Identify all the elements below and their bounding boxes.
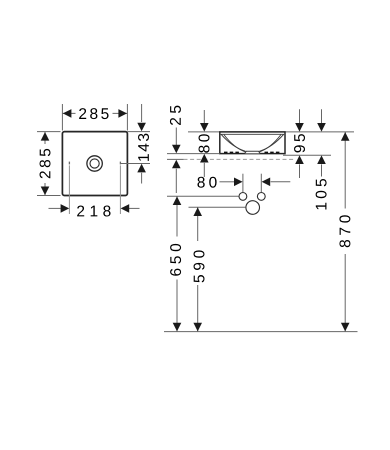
- dim 25: top arrow: [172, 145, 181, 154]
- dim 143 right: top tick: [127, 131, 150, 133]
- dim 105: top arrow: [317, 123, 326, 132]
- dim 143 right: label 143: [138, 134, 149, 161]
- dim 143 right: top arrow: [137, 123, 146, 132]
- dim 80 horizontal: right stem: [271, 181, 291, 183]
- dim 143 right: top stem: [141, 104, 143, 122]
- dim 285 left: top arrow: [41, 132, 50, 141]
- dim 95: top arrow: [295, 123, 304, 132]
- dim 95: label 95: [294, 134, 305, 152]
- dim 143 right: bottom stem: [141, 173, 143, 184]
- drain circle front: [246, 201, 260, 215]
- dim 105: top stem: [321, 109, 323, 123]
- dim 650: top arrow: [173, 196, 182, 205]
- dim 590: bottom arrow: [193, 323, 202, 332]
- plan view: basin square outline: [62, 132, 127, 196]
- dim 218 bottom: left arrow: [61, 204, 70, 213]
- plan view: right hole tick: [119, 162, 121, 165]
- side view: drain recess: [245, 151, 261, 153]
- dim 285 left: extension line top: [37, 131, 61, 133]
- side view: right level line: [283, 154, 331, 156]
- dim 590: label 590: [190, 241, 205, 285]
- dim 590: reference line: [189, 206, 246, 208]
- dim 285 top: extension line left: [61, 104, 63, 131]
- dim 650: reference line: [167, 195, 239, 197]
- dim 870: top arrow: [341, 132, 350, 141]
- dim 650: dimension line: [176, 196, 178, 331]
- side view: rim inner line: [221, 133, 285, 135]
- dim 80 horizontal: extension line right: [260, 174, 262, 192]
- dim 218 bottom: right stem: [129, 207, 140, 209]
- dim 80 horizontal: right arrow: [262, 178, 271, 187]
- dim 80 horizontal: left arrow: [234, 178, 243, 187]
- dim 870: dimension line: [344, 132, 346, 332]
- dim 285 top: left arrow: [63, 109, 72, 118]
- dim 25: bottom arrow: [172, 160, 181, 169]
- dim 25: top stem: [175, 128, 177, 146]
- dim 80 horizontal: extension line left: [242, 174, 244, 192]
- dim 285 top: dimension line: [62, 112, 127, 114]
- dim 218 bottom: right arrow: [121, 204, 130, 213]
- dim 590: top arrow: [193, 207, 202, 216]
- dim 285 left: dimension line: [44, 132, 46, 196]
- dim 95: bottom stem: [299, 164, 301, 178]
- dim 285 left: label 285: [38, 144, 53, 183]
- dim 143 right: bottom tick: [120, 163, 150, 165]
- dim 105: label 105: [316, 179, 327, 209]
- dim 80 vertical: top stem: [203, 110, 205, 123]
- dim 95: top stem: [299, 109, 301, 123]
- dim 105: bottom stem: [321, 164, 323, 176]
- dim 285 left: bottom arrow: [41, 187, 50, 196]
- dim 218 bottom: extension line right: [119, 165, 121, 214]
- dim 285 top: extension line right: [126, 104, 128, 131]
- plan view: drain circle inner: [90, 159, 99, 168]
- dim 105: bottom arrow: [317, 155, 326, 164]
- dim 143 right: bottom arrow: [137, 164, 146, 173]
- dim 95: bottom arrow: [295, 155, 304, 164]
- dim 218 bottom: extension line left: [68, 165, 70, 214]
- dim 650: bottom arrow: [173, 323, 182, 332]
- side view: rim extension line: [188, 131, 354, 133]
- plan view: left hole tick: [68, 162, 70, 165]
- side view: counter dashed line: [184, 158, 294, 160]
- dim 25: bottom stem: [175, 169, 177, 193]
- dim 80 vertical: label 80: [199, 134, 210, 152]
- side view: bottom extension line left: [167, 153, 220, 155]
- side view: mounting pad right: [265, 152, 282, 154]
- dim 25: label 25: [170, 106, 181, 125]
- dim 590: dimension line: [197, 207, 199, 331]
- side view: bowl curve left outer: [221, 134, 245, 151]
- dim 218 bottom: left stem: [49, 207, 61, 209]
- side view: bowl curve right outer: [259, 134, 283, 151]
- side view: bowl curve right inner: [259, 135, 281, 153]
- dim 870: label 870: [338, 209, 353, 255]
- dim 285 top: right arrow: [118, 109, 127, 118]
- side view: bowl curve left inner: [224, 135, 246, 153]
- faucet hole circle right: [257, 193, 265, 201]
- floor line: [164, 331, 358, 333]
- dim 285 left: extension line bottom: [37, 195, 61, 197]
- dim 80 horizontal: left stem: [220, 181, 235, 183]
- side view: basin outline: [220, 132, 285, 154]
- side view: mounting pad left: [224, 152, 241, 154]
- plan view: drain circle outer: [87, 156, 102, 171]
- dim 870: bottom arrow: [341, 323, 350, 332]
- dim 80 vertical: bottom arrow: [200, 154, 209, 163]
- dim 80 vertical: bottom stem: [203, 163, 205, 177]
- faucet hole circle left: [239, 193, 247, 201]
- dim 650: label 650: [170, 237, 185, 280]
- dim 218 bottom: label 218: [77, 206, 110, 217]
- dim 285 top: label 285: [76, 106, 113, 122]
- side view: counter solid tick: [167, 158, 184, 160]
- dim 80 horizontal: label 80: [197, 177, 216, 188]
- dim 80 vertical: top arrow: [200, 123, 209, 132]
